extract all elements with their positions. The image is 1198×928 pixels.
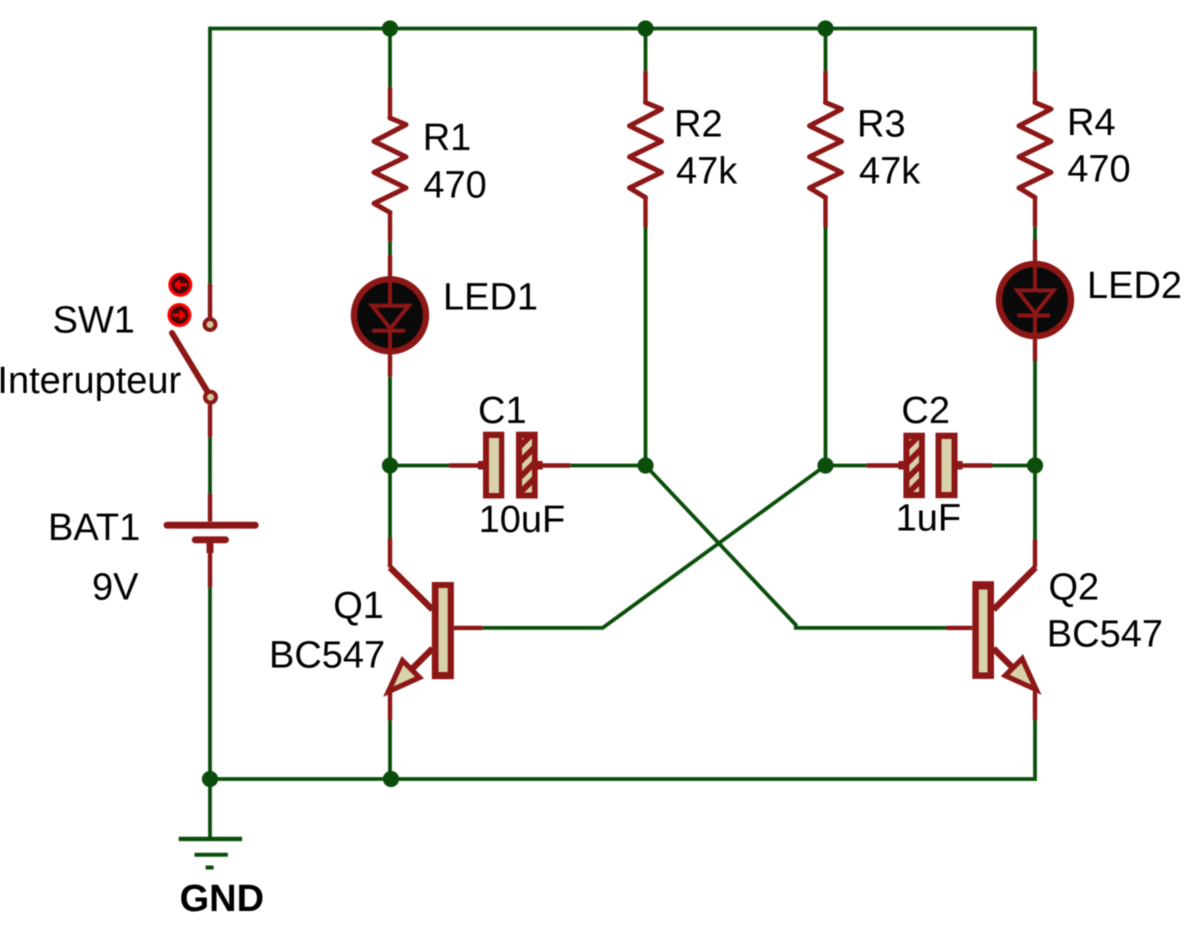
svg-text:C1: C1 [478, 390, 527, 432]
svg-text:BC547: BC547 [269, 635, 385, 677]
svg-text:Q2: Q2 [1049, 567, 1100, 609]
svg-text:47k: 47k [859, 151, 921, 193]
svg-text:9V: 9V [92, 566, 139, 608]
svg-text:10uF: 10uF [479, 499, 566, 541]
svg-text:R1: R1 [423, 117, 472, 159]
svg-text:R2: R2 [674, 104, 723, 146]
svg-text:SW1: SW1 [53, 300, 135, 342]
svg-text:BAT1: BAT1 [48, 507, 140, 549]
svg-text:Q1: Q1 [333, 585, 384, 627]
svg-text:Interupteur: Interupteur [0, 360, 182, 402]
svg-text:LED1: LED1 [443, 277, 538, 319]
svg-text:BC547: BC547 [1047, 613, 1163, 655]
svg-text:C2: C2 [901, 390, 950, 432]
svg-text:R4: R4 [1067, 102, 1116, 144]
svg-text:R3: R3 [857, 104, 906, 146]
svg-text:47k: 47k [676, 151, 738, 193]
svg-text:470: 470 [423, 165, 486, 207]
svg-text:LED2: LED2 [1087, 265, 1182, 307]
svg-text:1uF: 1uF [896, 497, 961, 539]
svg-text:470: 470 [1067, 149, 1130, 191]
svg-text:GND: GND [180, 878, 264, 920]
